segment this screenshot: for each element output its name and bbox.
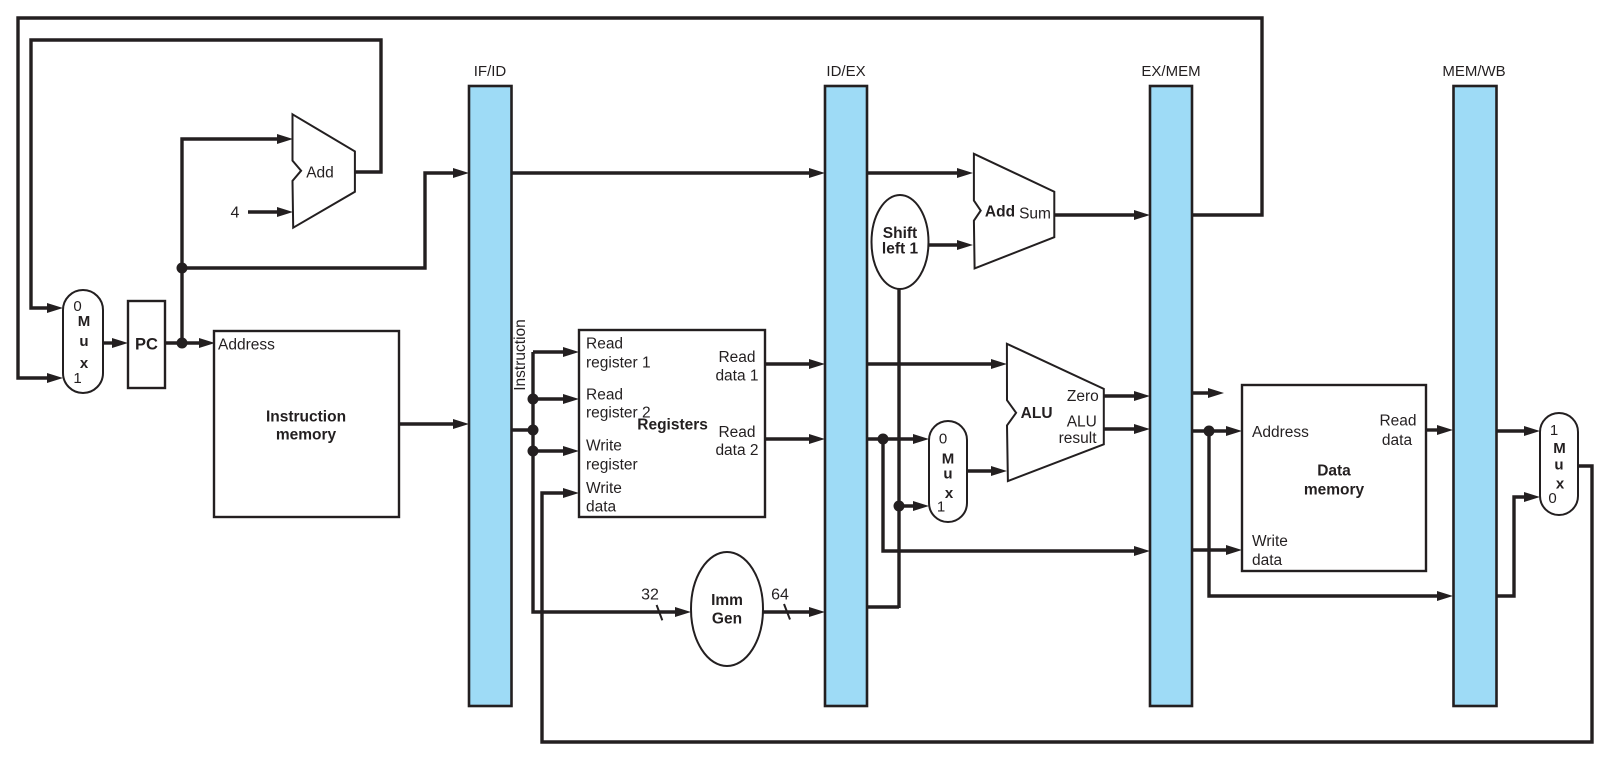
labels Registers ports [586, 336, 651, 516]
svg-text:memory: memory [1304, 481, 1365, 498]
svg-text:Address: Address [218, 337, 275, 354]
svg-text:4: 4 [231, 205, 240, 222]
svg-text:result: result [1059, 430, 1098, 447]
label 64 [771, 587, 789, 604]
svg-text:1: 1 [1550, 422, 1558, 439]
arrowhead: write data into EX/MEM [1134, 546, 1150, 556]
svg-text:x: x [1556, 476, 1565, 493]
wire: Mux M1 output to PC [103, 341, 115, 344]
svg-text:x: x [945, 485, 954, 502]
svg-text:Address: Address [1252, 424, 1309, 441]
junction dot: PC output [177, 338, 188, 349]
pipeline register ID/EX [825, 86, 867, 706]
svg-text:1: 1 [937, 498, 945, 515]
arrowhead: into Mux M3 input 0 [1524, 492, 1540, 502]
svg-text:PC: PC [135, 336, 158, 354]
mux M3 [1540, 413, 1578, 515]
arrowhead: Zero into EX/MEM [1134, 391, 1150, 401]
wire: MEM/WB read data to Mux M3 input 1 [1496, 429, 1528, 432]
label Write data [1252, 533, 1288, 569]
svg-text:Gen: Gen [712, 611, 742, 628]
arrowhead: PC into Add2 [957, 168, 973, 178]
svg-text:data: data [1252, 552, 1283, 569]
svg-text:Instruction: Instruction [266, 408, 346, 425]
wire: constant 4 into Add1 [248, 210, 280, 213]
svg-text:Registers: Registers [637, 417, 708, 434]
junction dot: Read data 2 branch [878, 434, 889, 445]
junction dot: ALU result branch [1204, 426, 1215, 437]
block Shift left 1 [872, 195, 929, 289]
svg-text:u: u [943, 466, 952, 483]
arrowhead: into Imm Gen [675, 607, 691, 617]
arrowhead: into Read register 2 [563, 394, 579, 404]
arrowhead: into PC [112, 338, 128, 348]
wire: instruction to Read register 2 [533, 397, 566, 400]
labels mux M3 [1548, 422, 1565, 507]
wire: Read data 1 to ID/EX [765, 362, 812, 365]
bus width slash 64 [784, 604, 790, 620]
wire: Shift left 1 output to Add2 [929, 243, 960, 246]
svg-text:32: 32 [641, 587, 659, 604]
wire: EX/MEM write data to Data memory [1192, 548, 1230, 551]
wire: ALU result output to EX/MEM [1104, 427, 1138, 430]
labels mux M1 [73, 298, 90, 387]
wire: write-back bus from Mux M3 to Registers Write data [542, 466, 1592, 742]
wire: MEM/WB ALU result bypass to Mux M3 input 0 [1496, 497, 1528, 596]
label Add2 and Sum [985, 204, 1051, 223]
svg-text:register: register [586, 457, 638, 474]
svg-text:memory: memory [276, 427, 337, 444]
wire: PC output to Instruction memory Address [165, 341, 202, 344]
wire: immediate branch to Mux M2 input 1 [899, 504, 916, 507]
arrowhead: Shift left 1 into Add2 [957, 240, 973, 250]
svg-text:Data: Data [1317, 462, 1351, 479]
wire: ID/EX Read data 1 to ALU [867, 362, 994, 365]
pipeline register MEM/WB [1454, 86, 1497, 706]
labels Zero / ALU result [1059, 388, 1099, 447]
wire: Instruction memory output to IF/ID [399, 422, 456, 425]
svg-text:u: u [1554, 457, 1563, 474]
svg-text:0: 0 [1548, 490, 1556, 507]
svg-text:Write: Write [586, 480, 622, 497]
junction dot: instruction bus at Read register 2 [528, 394, 539, 405]
adder Add2 (branch target) [974, 154, 1054, 269]
arrowhead: into Mux M2 input 0 [913, 434, 929, 444]
svg-text:data 2: data 2 [715, 442, 758, 459]
svg-text:register 1: register 1 [586, 355, 651, 372]
svg-text:data: data [586, 499, 617, 516]
svg-text:Write: Write [586, 438, 622, 455]
arrowhead: Mux M2 output into ALU [991, 466, 1007, 476]
arrowhead: Read data 1 into ID/EX [809, 359, 825, 369]
svg-text:1: 1 [73, 370, 81, 387]
label Instruction memory [266, 408, 346, 443]
svg-text:IF/ID: IF/ID [474, 63, 507, 80]
svg-text:Write: Write [1252, 533, 1288, 550]
label PC [135, 336, 158, 354]
arrowhead: ALU result into EX/MEM [1134, 424, 1150, 434]
svg-text:Read: Read [1379, 412, 1416, 429]
arrowhead: into Mux M1 input 0 [47, 303, 63, 313]
arrowhead: 4 into Add1 [277, 207, 293, 217]
svg-text:Read: Read [718, 349, 755, 366]
wire: EX/MEM ALU result to Data memory Address [1192, 429, 1230, 432]
svg-text:Imm: Imm [711, 592, 743, 609]
arrowhead: into Mux M2 input 1 [913, 501, 929, 511]
wire: instruction bus vertical to Imm Gen [533, 352, 678, 612]
label ALU [1021, 405, 1053, 422]
block Imm Gen [691, 552, 763, 666]
wire: EX/MEM Zero stub [1192, 391, 1212, 394]
svg-text:0: 0 [939, 431, 947, 448]
wire: PC value riser at x=182 [182, 139, 280, 343]
register PC [128, 301, 165, 388]
block Registers [579, 330, 765, 517]
wire: PC value to IF/ID [182, 173, 456, 268]
label MEM/WB [1442, 63, 1505, 80]
wire: instruction to Write register [533, 449, 566, 452]
wire: IF/ID PC to ID/EX [511, 171, 812, 174]
svg-text:Shift: Shift [883, 225, 917, 242]
svg-text:ID/EX: ID/EX [826, 63, 865, 80]
arrowhead: into Data memory Write data [1226, 545, 1242, 555]
wire: Read data 2 branch down to EX/MEM write data [883, 439, 1137, 551]
arrowhead: into Mux M1 input 1 [47, 373, 63, 383]
svg-text:u: u [79, 333, 88, 350]
svg-text:left 1: left 1 [882, 241, 919, 258]
wire: ALU Zero output to EX/MEM [1104, 394, 1138, 397]
svg-text:Add: Add [985, 204, 1015, 221]
svg-text:MEM/WB: MEM/WB [1442, 63, 1505, 80]
wire: ID/EX immediate out riser to Shift left 1 [867, 288, 899, 608]
label Data memory [1304, 462, 1365, 498]
svg-text:data: data [1382, 432, 1413, 449]
label Registers [637, 417, 708, 434]
label 32 [641, 587, 659, 604]
svg-text:ALU: ALU [1067, 413, 1097, 430]
arrowhead: Read data 1 into ALU [991, 359, 1007, 369]
svg-text:Read: Read [586, 336, 623, 353]
labels Read data 1 / Read data 2 [715, 349, 758, 459]
svg-text:Read: Read [718, 424, 755, 441]
adder Add1 (PC+4) [293, 114, 355, 227]
svg-text:M: M [1553, 440, 1566, 457]
mux M2 [929, 421, 967, 522]
arrowhead: instruction into IF/ID [453, 419, 469, 429]
arrowhead: immediate into ID/EX [809, 607, 825, 617]
arrowhead: into Write register [563, 446, 579, 456]
arrowhead: into Mux M3 input 1 [1524, 426, 1540, 436]
wire: IF/ID instruction output to bus [511, 428, 533, 431]
wire: ALU result bypass under Data memory to MEM/WB [1209, 431, 1441, 596]
arrowhead: into Data memory Address [1226, 426, 1242, 436]
label EX/MEM [1141, 63, 1200, 80]
label Add1 [306, 165, 334, 182]
alu U1 [1007, 344, 1104, 481]
label 4 [231, 205, 240, 222]
bus width slash 32 [657, 605, 663, 620]
svg-text:64: 64 [771, 587, 789, 604]
wire: Read data 2 to ID/EX [765, 437, 812, 440]
svg-text:Instruction: Instruction [512, 319, 529, 391]
junction dot: PC value branch [177, 263, 188, 274]
arrowhead: PC into ID/EX [809, 168, 825, 178]
wire: Data memory Read data to MEM/WB [1426, 428, 1441, 431]
labels mux M2 [937, 431, 954, 516]
svg-text:ALU: ALU [1021, 405, 1053, 422]
wire: Mux M2 output to ALU [967, 469, 994, 472]
arrowhead: Read data 2 into ID/EX [809, 434, 825, 444]
svg-text:Read: Read [586, 386, 623, 403]
arrowhead: into Instruction memory Address [199, 338, 215, 348]
label ID/EX [826, 63, 865, 80]
svg-text:M: M [78, 313, 91, 330]
mux M1 [63, 290, 103, 393]
svg-text:data 1: data 1 [715, 367, 758, 384]
svg-text:Sum: Sum [1019, 205, 1051, 222]
label Read data [1379, 412, 1416, 449]
arrowhead: into Read register 1 [563, 347, 579, 357]
arrowhead: PC value into IF/ID [453, 168, 469, 178]
label Address (data memory) [1252, 424, 1309, 441]
svg-text:Add: Add [306, 165, 334, 182]
pipeline register IF/ID [469, 86, 512, 706]
wire: instruction to Read register 1 [533, 350, 566, 353]
arrowhead: PC value into Add1 [277, 134, 293, 144]
label IF/ID [474, 63, 507, 80]
label Imm Gen [711, 592, 743, 628]
arrowhead: into Write data [563, 488, 579, 498]
wire: PC+4 loop (Add1 output, up, left, down to Mux M1 input 0) [31, 40, 381, 308]
arrowhead: Sum into EX/MEM [1134, 210, 1150, 220]
junction dot: instruction bus at Write register [528, 446, 539, 457]
label Shift left 1 [882, 225, 919, 258]
label Address (instruction memory) [218, 337, 275, 354]
block Data memory [1242, 385, 1426, 571]
wire: ID/EX PC to Add2 [867, 171, 960, 174]
wire: Add2 Sum output into EX/MEM [1055, 213, 1138, 216]
junction dot: instruction bus main [528, 425, 539, 436]
wire: branch target loop (EX/MEM Sum output right, up over top, down to Mux M1 input 1) [18, 18, 1262, 378]
block Instruction memory [214, 331, 399, 517]
arrowhead: bypass into MEM/WB [1437, 591, 1453, 601]
svg-text:EX/MEM: EX/MEM [1141, 63, 1200, 80]
pipeline register EX/MEM [1150, 86, 1192, 706]
svg-text:Zero: Zero [1067, 388, 1099, 405]
arrowhead: Read data into MEM/WB [1437, 425, 1453, 435]
label Instruction (rotated) [512, 319, 529, 391]
junction dot: immediate branch [894, 501, 905, 512]
wire: Imm Gen output to ID/EX [763, 610, 812, 613]
arrowhead: EX/MEM Zero stub [1208, 388, 1224, 398]
wire: ID/EX Read data 2 to Mux M2 input 0 [867, 437, 916, 440]
